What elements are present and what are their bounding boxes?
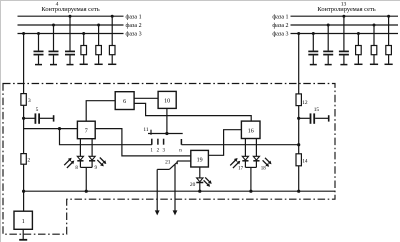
capacitor (left net, phase 1) [65,15,75,65]
resistor 14 [296,154,308,166]
svg-text:фаза 1: фаза 1 [272,13,288,20]
wire (phase 3 right drop into unit) [298,34,300,94]
block 10 [158,91,176,108]
wire (block 10 down to contact bar 11) [166,108,168,133]
resistor (right net, phase 3) [354,32,362,64]
light arrows into diode 17 [230,158,240,168]
svg-text:19: 19 [197,158,203,164]
wire (block 19 lower-left to switch 21) [177,160,191,162]
svg-text:12: 12 [302,100,308,106]
svg-text:6: 6 [123,99,126,105]
light arrows out of diode 9 [97,158,106,167]
wire (junction down to contact row) [60,129,152,145]
node junction capacitor 15 tap [297,117,300,120]
resistor (left net, phase 1) [108,15,116,65]
node phase3 tap right [297,32,300,35]
svg-text:21: 21 [165,160,171,166]
svg-text:10: 10 [164,99,170,105]
capacitor (right net, phase 3) [308,32,318,65]
svg-text:n: n [179,148,182,153]
node bus junction diode pair left [85,190,88,193]
block 16 [241,121,260,138]
svg-text:20: 20 [190,182,196,188]
wire (common bottom bus) [24,190,335,192]
capacitor (right net, phase 2) [323,24,333,65]
light arrows into diode 8 [64,158,74,168]
svg-text:5: 5 [36,107,39,113]
photodiode 17 [242,139,248,168]
svg-text:8: 8 [75,166,78,171]
wire (resistor 12 to resistor 14) [298,106,300,154]
svg-text:фаза 2: фаза 2 [272,22,288,29]
wire (resistor 2 to common bus) [23,164,25,211]
node фаза 1 (left net, wire) [18,15,124,17]
block 7 [77,121,95,139]
capacitor (right net, phase 1) [339,15,349,65]
pin 2 of connector 11 [157,139,159,145]
wire (output arrow right) [173,165,178,216]
svg-text:14: 14 [302,158,308,164]
svg-text:11: 11 [143,127,148,133]
node фаза 3 (right net, wire) [291,33,399,35]
wire (diode pair 8/9 common bar) [80,166,92,168]
node junction on contact bar [165,132,168,135]
wire (pin n to right measuring chain) [181,144,298,146]
wire (block 7 top to block 6) [86,101,115,122]
svg-text:фаза 1: фаза 1 [126,13,142,20]
light arrows out of LED 20 [204,177,212,186]
svg-text:1: 1 [150,148,153,153]
node bus junction right [297,190,300,193]
resistor (right net, phase 2) [370,24,378,65]
wire (diode pair 17/18 common bar) [245,166,256,168]
block 19 [191,150,209,167]
node фаза 2 (left net, wire) [18,24,124,26]
resistor 12 [296,94,308,106]
svg-text:3: 3 [163,148,166,153]
capacitor 5 [24,107,54,124]
resistor 2 [21,154,31,165]
wire (bus to block 7 input) [24,128,78,130]
wire (resistor 14 to bus) [298,166,300,191]
page border top [0,0,400,2]
light arrows out of diode 18 [263,158,272,167]
svg-text:2: 2 [157,148,160,153]
svg-text:1: 1 [22,219,25,225]
LED 18 [253,139,259,168]
switch 21 [157,161,177,169]
connector 11 (contact row) [143,127,182,135]
resistor (left net, phase 3) [80,32,88,64]
node junction contact row feed [297,143,300,146]
node bus junction left [22,190,25,193]
node junction at x59.5 [58,127,61,130]
svg-text:Контролируемая сеть: Контролируемая сеть [317,6,375,13]
node phase3 tap left [22,32,25,35]
node фаза 2 (right net, wire) [291,24,399,26]
wire (pair 17/18 to bus) [250,167,252,191]
wire (phase 3 left drop into unit) [23,34,25,94]
svg-text:17: 17 [238,167,244,172]
svg-text:9: 9 [95,166,98,171]
pin n of connector 11 [180,139,182,145]
node bus junction diode pair right [249,190,252,193]
photodiode 8 [77,139,83,168]
svg-text:2: 2 [28,157,31,163]
capacitor (left net, phase 3) [34,32,44,65]
pin 1 of connector 11 [151,139,153,145]
node bus junction LED 20 [198,190,201,193]
node junction capacitor 5 tap [22,117,25,120]
wire (output arrow left) [155,169,160,215]
node фаза 1 (right net, wire) [291,15,399,17]
svg-text:7: 7 [85,129,88,135]
svg-text:3: 3 [28,98,31,104]
svg-text:15: 15 [314,107,320,113]
wire (block 6 lower output to block 16 top) [134,103,251,121]
svg-text:фаза 3: фаза 3 [272,31,288,38]
svg-text:16: 16 [248,129,254,135]
resistor (left net, phase 2) [95,24,103,65]
LED 9 [89,139,95,168]
node фаза 3 (left net, wire) [18,33,124,35]
capacitor 15 [299,107,329,124]
svg-text:фаза 3: фаза 3 [126,31,142,38]
resistor 3 [21,94,31,106]
block 6 [115,92,134,110]
svg-text:Контролируемая сеть: Контролируемая сеть [41,6,99,13]
wire (block 7 right to block 19 upper input) [95,129,191,156]
wire (resistor 3 to resistor 2) [23,105,25,153]
ground (below block 1) [19,229,27,240]
pin 3 of connector 11 [163,139,165,145]
LED 20 [196,167,203,191]
svg-text:18: 18 [261,167,267,172]
resistor (right net, phase 1) [385,15,393,65]
wire (block 19 right to block 16 left) [208,130,241,156]
page border left [0,0,2,242]
enclosure boundary (dash-dot unit outline) [3,84,335,235]
capacitor (left net, phase 2) [49,24,59,65]
wire (block 6 to block 10) [134,97,158,99]
block 1 [14,211,32,229]
svg-text:фаза 2: фаза 2 [126,22,142,29]
wire (pair 8/9 to bus) [85,167,87,191]
